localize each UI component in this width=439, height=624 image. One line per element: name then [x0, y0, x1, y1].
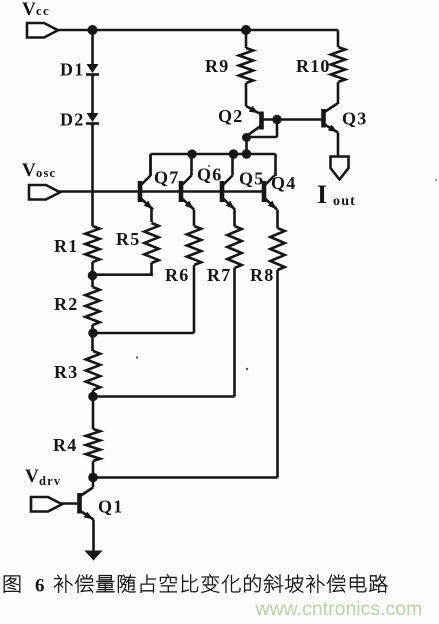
svg-text:out: out	[333, 194, 356, 209]
resistor R5	[116, 223, 159, 274]
resistor R9	[205, 25, 253, 106]
svg-text:I: I	[317, 180, 328, 209]
svg-text:osc: osc	[36, 166, 56, 180]
wire R6 bottom to R2/R3 node	[93, 265, 195, 333]
wire Vcc junction down to D1	[91, 30, 94, 64]
svg-text:R4: R4	[53, 435, 77, 455]
resistor R7	[207, 226, 242, 285]
node bus-Q6	[187, 149, 196, 158]
svg-text:R2: R2	[54, 294, 78, 314]
node Q2 collector junction	[242, 133, 251, 142]
svg-text:V: V	[22, 160, 37, 181]
transistor Q5	[222, 169, 264, 210]
wire Q3 emitter down to output	[337, 133, 340, 158]
Vcc input terminal	[27, 23, 58, 38]
resistor R10	[296, 30, 345, 104]
svg-text:Q4: Q4	[271, 173, 296, 193]
wire R7 bottom to R3/R4 node	[93, 268, 235, 397]
svg-text:cc: cc	[36, 3, 50, 18]
wire collector bus	[151, 154, 276, 176]
svg-text:R10: R10	[296, 56, 331, 76]
Vosc label	[22, 160, 56, 181]
diode D2	[60, 110, 99, 130]
svg-text:www.cntronics.com: www.cntronics.com	[255, 598, 423, 620]
svg-text:6: 6	[35, 576, 46, 597]
wire R10 to Q3 collector	[336, 102, 339, 105]
transistor Q2 (diode-connected PNP)	[218, 106, 262, 136]
wire Q7 collector/emitter leads	[151, 155, 152, 222]
resistor R4	[53, 429, 100, 488]
svg-text:D1: D1	[60, 60, 84, 80]
Vdrv label	[25, 466, 61, 488]
svg-text:R3: R3	[54, 362, 78, 382]
Vosc input terminal	[29, 185, 60, 200]
svg-text:R5: R5	[116, 229, 140, 249]
resistor R1	[54, 226, 100, 287]
wire R5 bottom to R1/R2 node	[93, 274, 153, 276]
svg-text:Q5: Q5	[239, 169, 264, 189]
wire D2 down to R1 (crosses Vosc line)	[91, 124, 94, 227]
svg-text:V: V	[22, 0, 37, 20]
wire Q2 base-collector short	[247, 120, 278, 138]
svg-text:Q6: Q6	[197, 165, 222, 185]
wire Q5 collector/emitter leads	[233, 155, 235, 226]
transistor Q3	[324, 104, 368, 133]
svg-text:V: V	[25, 466, 40, 487]
wire Vcc rail top horizontal	[57, 29, 338, 32]
wire D1 to D2	[91, 75, 94, 114]
wire Q4 emitter lead	[276, 210, 279, 229]
node bus-Q2	[242, 149, 252, 159]
wire Q2 collector down to bus	[245, 137, 248, 154]
wire R8 bottom to Vdrv node	[93, 270, 278, 478]
svg-text:Q7: Q7	[154, 168, 179, 188]
svg-text:R1: R1	[54, 236, 78, 256]
caption figure number 图 6	[4, 576, 46, 597]
wire Q2 base to Q3 base	[263, 118, 322, 121]
scan speckles	[136, 165, 437, 370]
wire Q6 collector/emitter leads	[192, 155, 195, 226]
resistor R6	[165, 226, 201, 285]
I_out label	[317, 180, 356, 209]
node Vdrv/R4/R8/Q1	[88, 473, 98, 483]
Q1 base input terminal	[31, 497, 62, 512]
svg-text:R7: R7	[207, 265, 231, 285]
diode D1	[60, 60, 99, 80]
Vcc label	[22, 0, 50, 20]
node R1/R2/R5	[88, 271, 98, 281]
node R2/R3/R6	[88, 328, 98, 338]
wire Vosc base line	[59, 190, 264, 193]
caption text 补偿量随占空比变化的斜坡补偿电路	[54, 574, 387, 592]
watermark www.cntronics.com	[255, 598, 423, 620]
node Vcc junction to diode chain	[88, 25, 98, 35]
transistor Q6	[181, 165, 222, 210]
svg-text:R6: R6	[165, 265, 189, 285]
resistor R8	[250, 228, 285, 285]
svg-text:drv: drv	[39, 474, 61, 488]
svg-text:Q1: Q1	[98, 497, 123, 517]
svg-text:R9: R9	[205, 56, 229, 76]
transistor Q4	[264, 173, 296, 210]
wire Q1 emitter to ground	[92, 520, 95, 553]
node bus-Q5	[229, 149, 239, 159]
output terminal I_out	[331, 157, 349, 180]
svg-text:D2: D2	[60, 110, 84, 130]
node R3/R4/R7	[88, 392, 98, 402]
resistor R3	[54, 351, 100, 429]
transistor Q1	[80, 488, 124, 520]
wire Q1 base	[61, 502, 78, 505]
svg-text:Q2: Q2	[218, 106, 243, 126]
ground	[85, 551, 103, 561]
svg-text:R8: R8	[250, 265, 274, 285]
svg-text:Q3: Q3	[342, 109, 367, 129]
transistor Q7	[140, 168, 179, 210]
node Q2 base junction	[272, 115, 281, 124]
resistor R2	[54, 287, 100, 351]
